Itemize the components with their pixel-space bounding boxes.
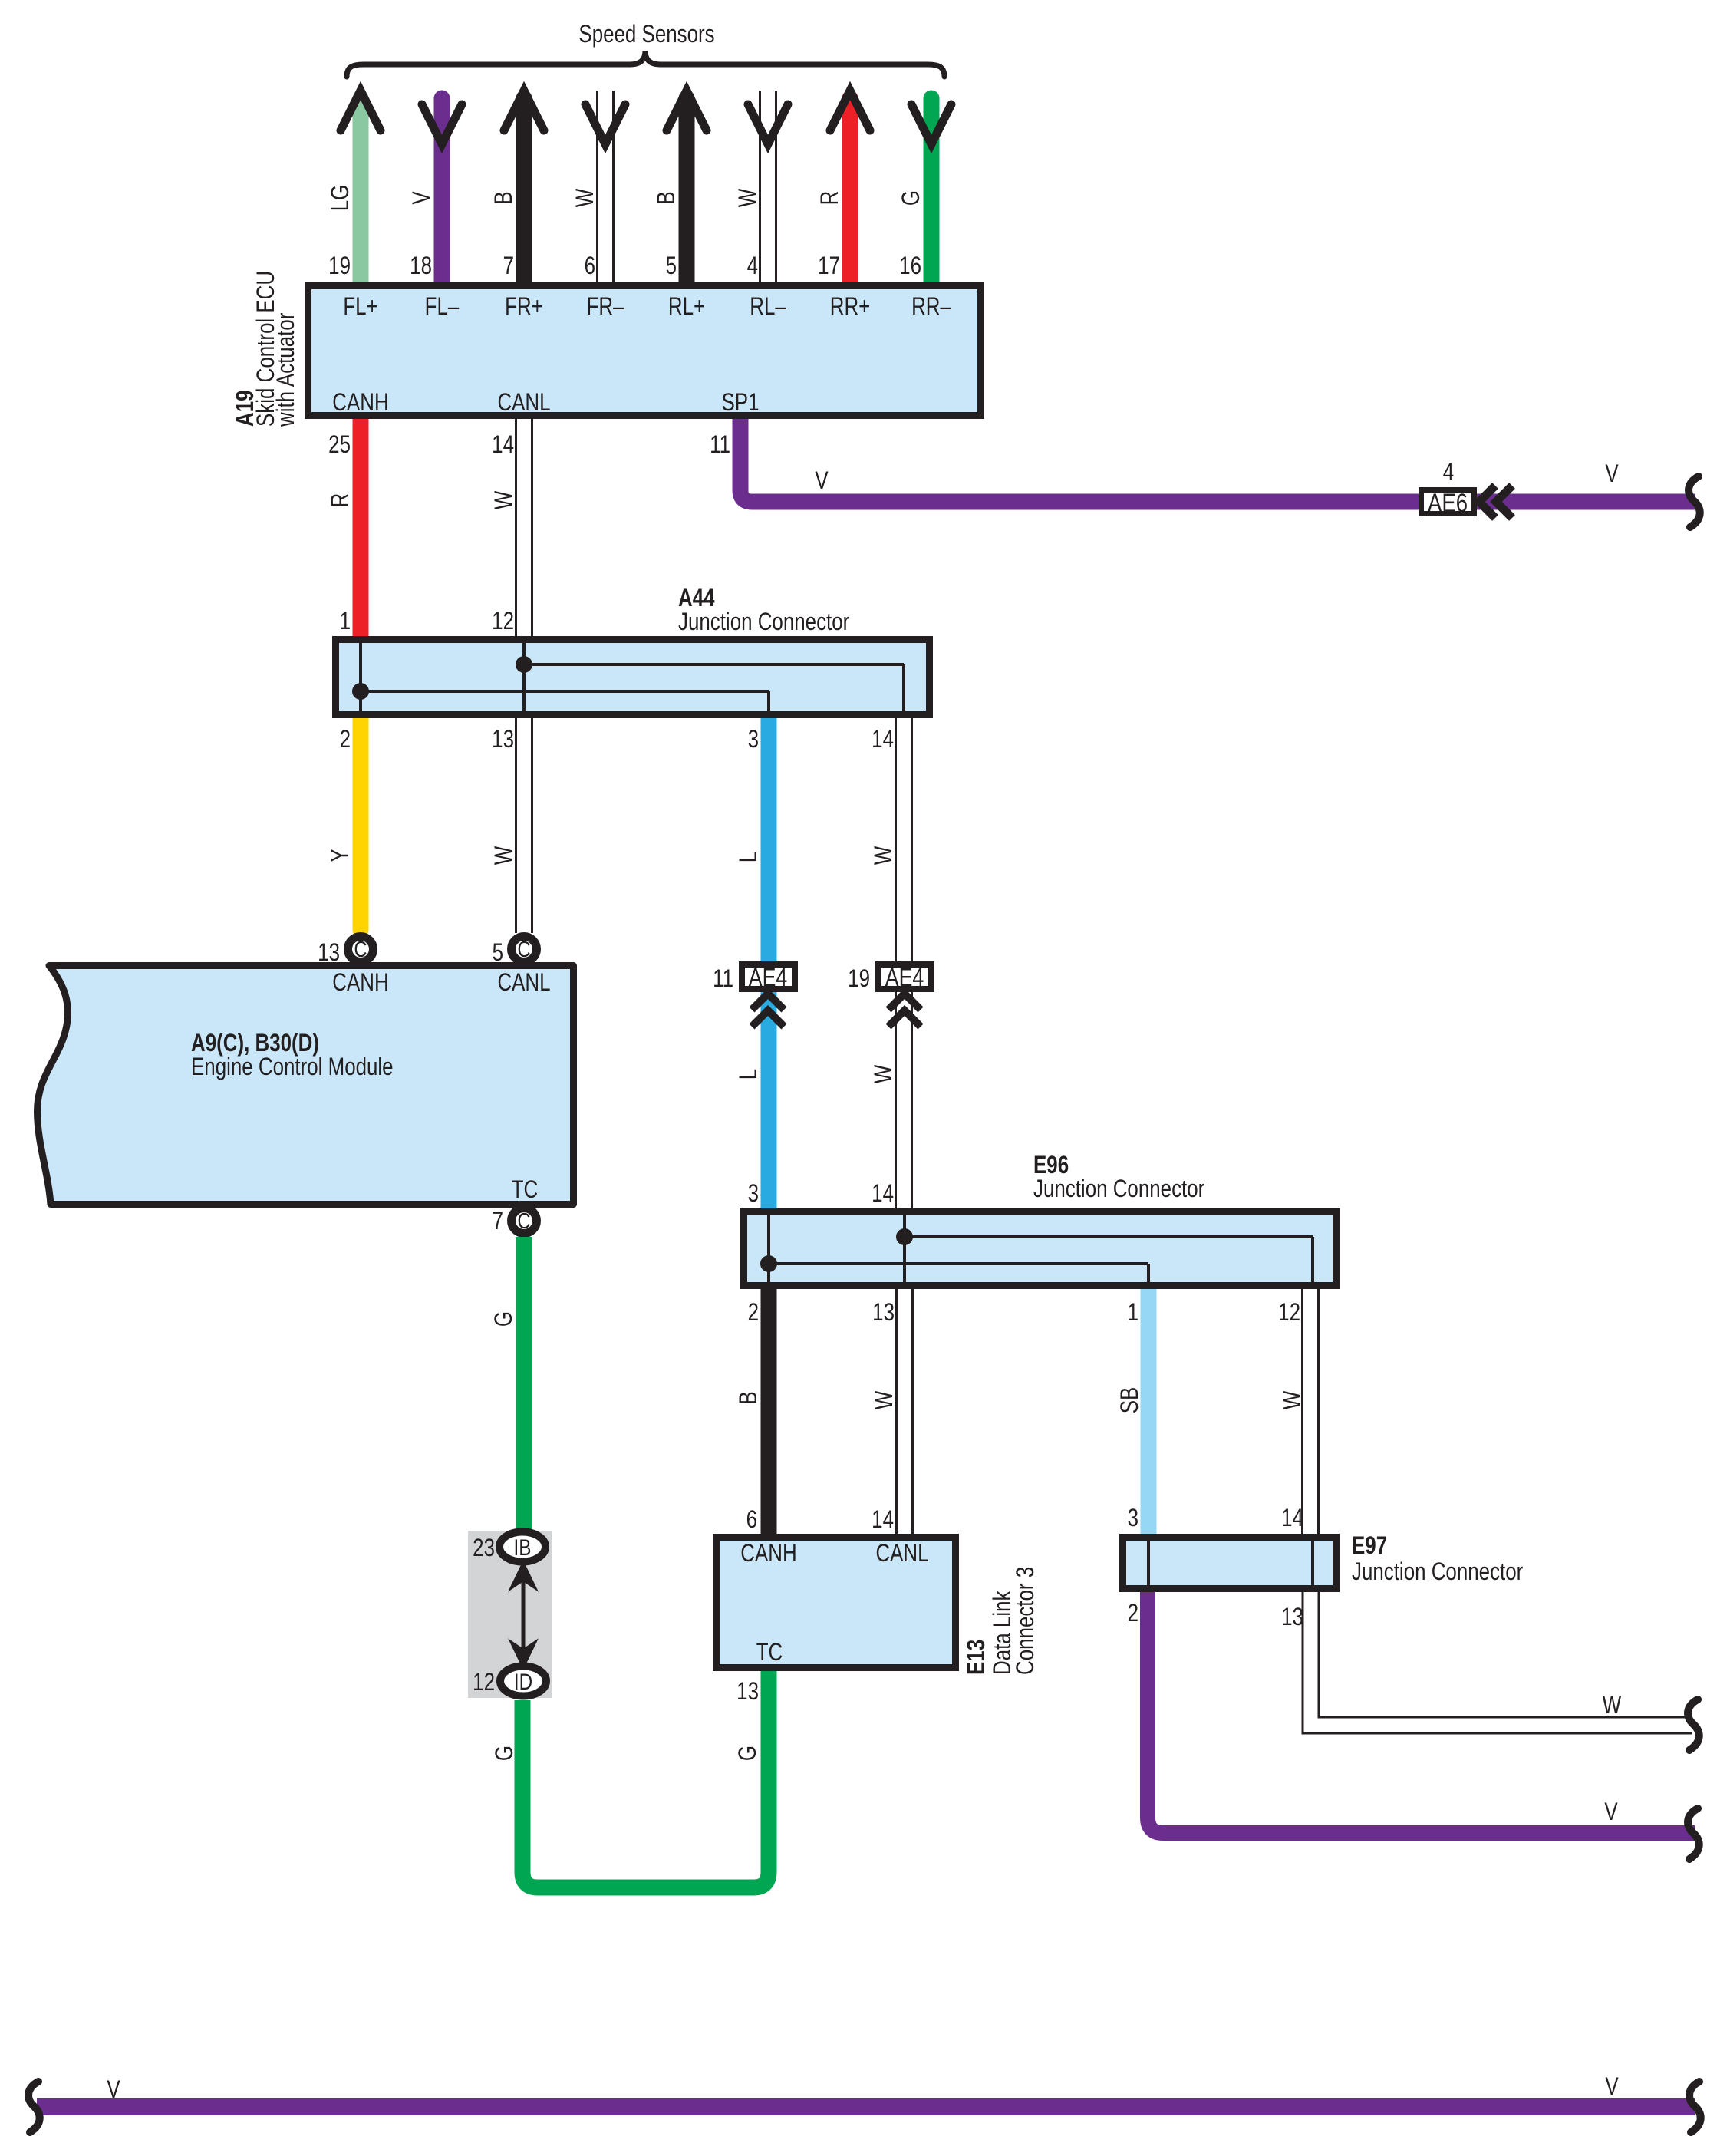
svg-text:B: B (736, 1391, 763, 1404)
svg-text:C: C (354, 937, 367, 962)
svg-text:B: B (491, 191, 518, 204)
svg-text:Speed Sensors: Speed Sensors (578, 21, 714, 48)
svg-text:Junction Connector: Junction Connector (678, 609, 850, 636)
svg-text:2: 2 (748, 1300, 759, 1327)
svg-text:14: 14 (492, 432, 514, 459)
svg-text:16: 16 (899, 253, 921, 280)
svg-text:G: G (735, 1746, 762, 1761)
svg-text:AE4: AE4 (749, 964, 788, 991)
svg-text:4: 4 (1443, 460, 1454, 486)
svg-text:W: W (1603, 1693, 1622, 1719)
svg-text:W: W (572, 188, 599, 207)
svg-text:RR+: RR+ (830, 294, 871, 321)
svg-text:13: 13 (1281, 1604, 1303, 1631)
svg-text:6: 6 (746, 1507, 757, 1534)
svg-text:W: W (1280, 1390, 1307, 1409)
svg-text:Connector 3: Connector 3 (1013, 1567, 1040, 1675)
svg-text:CANL: CANL (497, 390, 550, 417)
svg-text:FR–: FR– (587, 294, 625, 321)
svg-text:19: 19 (848, 966, 870, 993)
svg-text:Engine Control Module: Engine Control Module (191, 1054, 394, 1081)
svg-text:CANH: CANH (740, 1541, 796, 1568)
svg-text:W: W (871, 846, 898, 865)
svg-text:W: W (871, 1064, 898, 1083)
svg-text:V: V (409, 191, 436, 205)
svg-text:17: 17 (818, 253, 840, 280)
svg-text:14: 14 (872, 1181, 894, 1208)
svg-text:E96: E96 (1033, 1152, 1069, 1179)
svg-text:E13: E13 (964, 1640, 990, 1675)
svg-text:Y: Y (328, 849, 354, 862)
svg-text:R: R (328, 493, 354, 508)
svg-text:6: 6 (585, 253, 595, 280)
svg-text:ID: ID (514, 1669, 532, 1695)
svg-text:12: 12 (473, 1670, 495, 1696)
svg-text:11: 11 (713, 966, 733, 993)
svg-text:11: 11 (710, 432, 730, 459)
svg-text:A44: A44 (678, 585, 715, 612)
svg-text:2: 2 (340, 727, 351, 753)
svg-text:Junction Connector: Junction Connector (1033, 1176, 1205, 1203)
svg-text:2: 2 (1128, 1601, 1139, 1627)
svg-text:V: V (1605, 2074, 1619, 2101)
svg-text:14: 14 (1281, 1505, 1303, 1532)
svg-text:E97: E97 (1352, 1533, 1387, 1560)
svg-text:3: 3 (748, 727, 759, 753)
svg-text:A9(C), B30(D): A9(C), B30(D) (191, 1030, 319, 1057)
svg-text:G: G (491, 1311, 518, 1327)
svg-text:IB: IB (514, 1535, 532, 1561)
svg-text:LG: LG (328, 185, 354, 212)
svg-text:5: 5 (666, 253, 677, 280)
svg-text:SB: SB (1117, 1387, 1144, 1414)
svg-text:TC: TC (512, 1177, 539, 1204)
svg-text:12: 12 (492, 608, 514, 635)
svg-text:W: W (491, 490, 518, 509)
svg-text:R: R (817, 191, 844, 206)
svg-text:14: 14 (872, 1507, 894, 1534)
svg-text:AE6: AE6 (1428, 488, 1468, 517)
svg-text:13: 13 (736, 1679, 759, 1706)
svg-text:B: B (654, 191, 680, 204)
svg-text:Junction Connector: Junction Connector (1352, 1559, 1524, 1586)
svg-text:FL–: FL– (425, 294, 460, 321)
svg-text:1: 1 (1128, 1300, 1139, 1327)
svg-text:C: C (518, 937, 531, 962)
svg-text:with Actuator: with Actuator (273, 312, 300, 427)
svg-text:19: 19 (328, 253, 351, 280)
svg-text:CANL: CANL (497, 970, 550, 997)
svg-text:23: 23 (473, 1535, 495, 1562)
svg-text:RL–: RL– (750, 294, 786, 321)
svg-text:CANL: CANL (875, 1541, 928, 1568)
svg-text:G: G (492, 1746, 519, 1761)
svg-text:FR+: FR+ (505, 294, 543, 321)
svg-text:L: L (736, 852, 763, 862)
svg-text:3: 3 (1128, 1505, 1139, 1532)
svg-text:13: 13 (872, 1300, 895, 1327)
svg-text:C: C (518, 1208, 531, 1234)
svg-text:12: 12 (1278, 1300, 1300, 1327)
svg-text:AE4: AE4 (885, 964, 924, 991)
svg-text:25: 25 (328, 432, 351, 459)
svg-text:V: V (1604, 1799, 1618, 1826)
svg-text:CANH: CANH (332, 390, 388, 417)
svg-text:14: 14 (872, 727, 894, 753)
svg-text:RL+: RL+ (668, 294, 705, 321)
svg-text:SP1: SP1 (722, 390, 760, 417)
svg-text:W: W (491, 846, 518, 865)
svg-text:TC: TC (756, 1640, 783, 1666)
svg-text:18: 18 (410, 253, 432, 280)
svg-text:13: 13 (492, 727, 514, 753)
svg-text:W: W (872, 1390, 898, 1409)
svg-text:7: 7 (493, 1208, 503, 1235)
svg-text:CANH: CANH (332, 970, 388, 997)
svg-text:G: G (898, 190, 925, 206)
svg-text:7: 7 (503, 253, 514, 280)
svg-text:L: L (736, 1069, 763, 1080)
svg-text:FL+: FL+ (343, 294, 377, 321)
svg-text:V: V (815, 468, 829, 495)
svg-text:3: 3 (748, 1181, 759, 1208)
svg-text:1: 1 (340, 608, 351, 635)
svg-text:RR–: RR– (911, 294, 952, 321)
svg-text:W: W (735, 188, 762, 207)
svg-text:V: V (1605, 461, 1619, 488)
svg-text:V: V (107, 2077, 120, 2104)
svg-text:4: 4 (747, 253, 758, 280)
